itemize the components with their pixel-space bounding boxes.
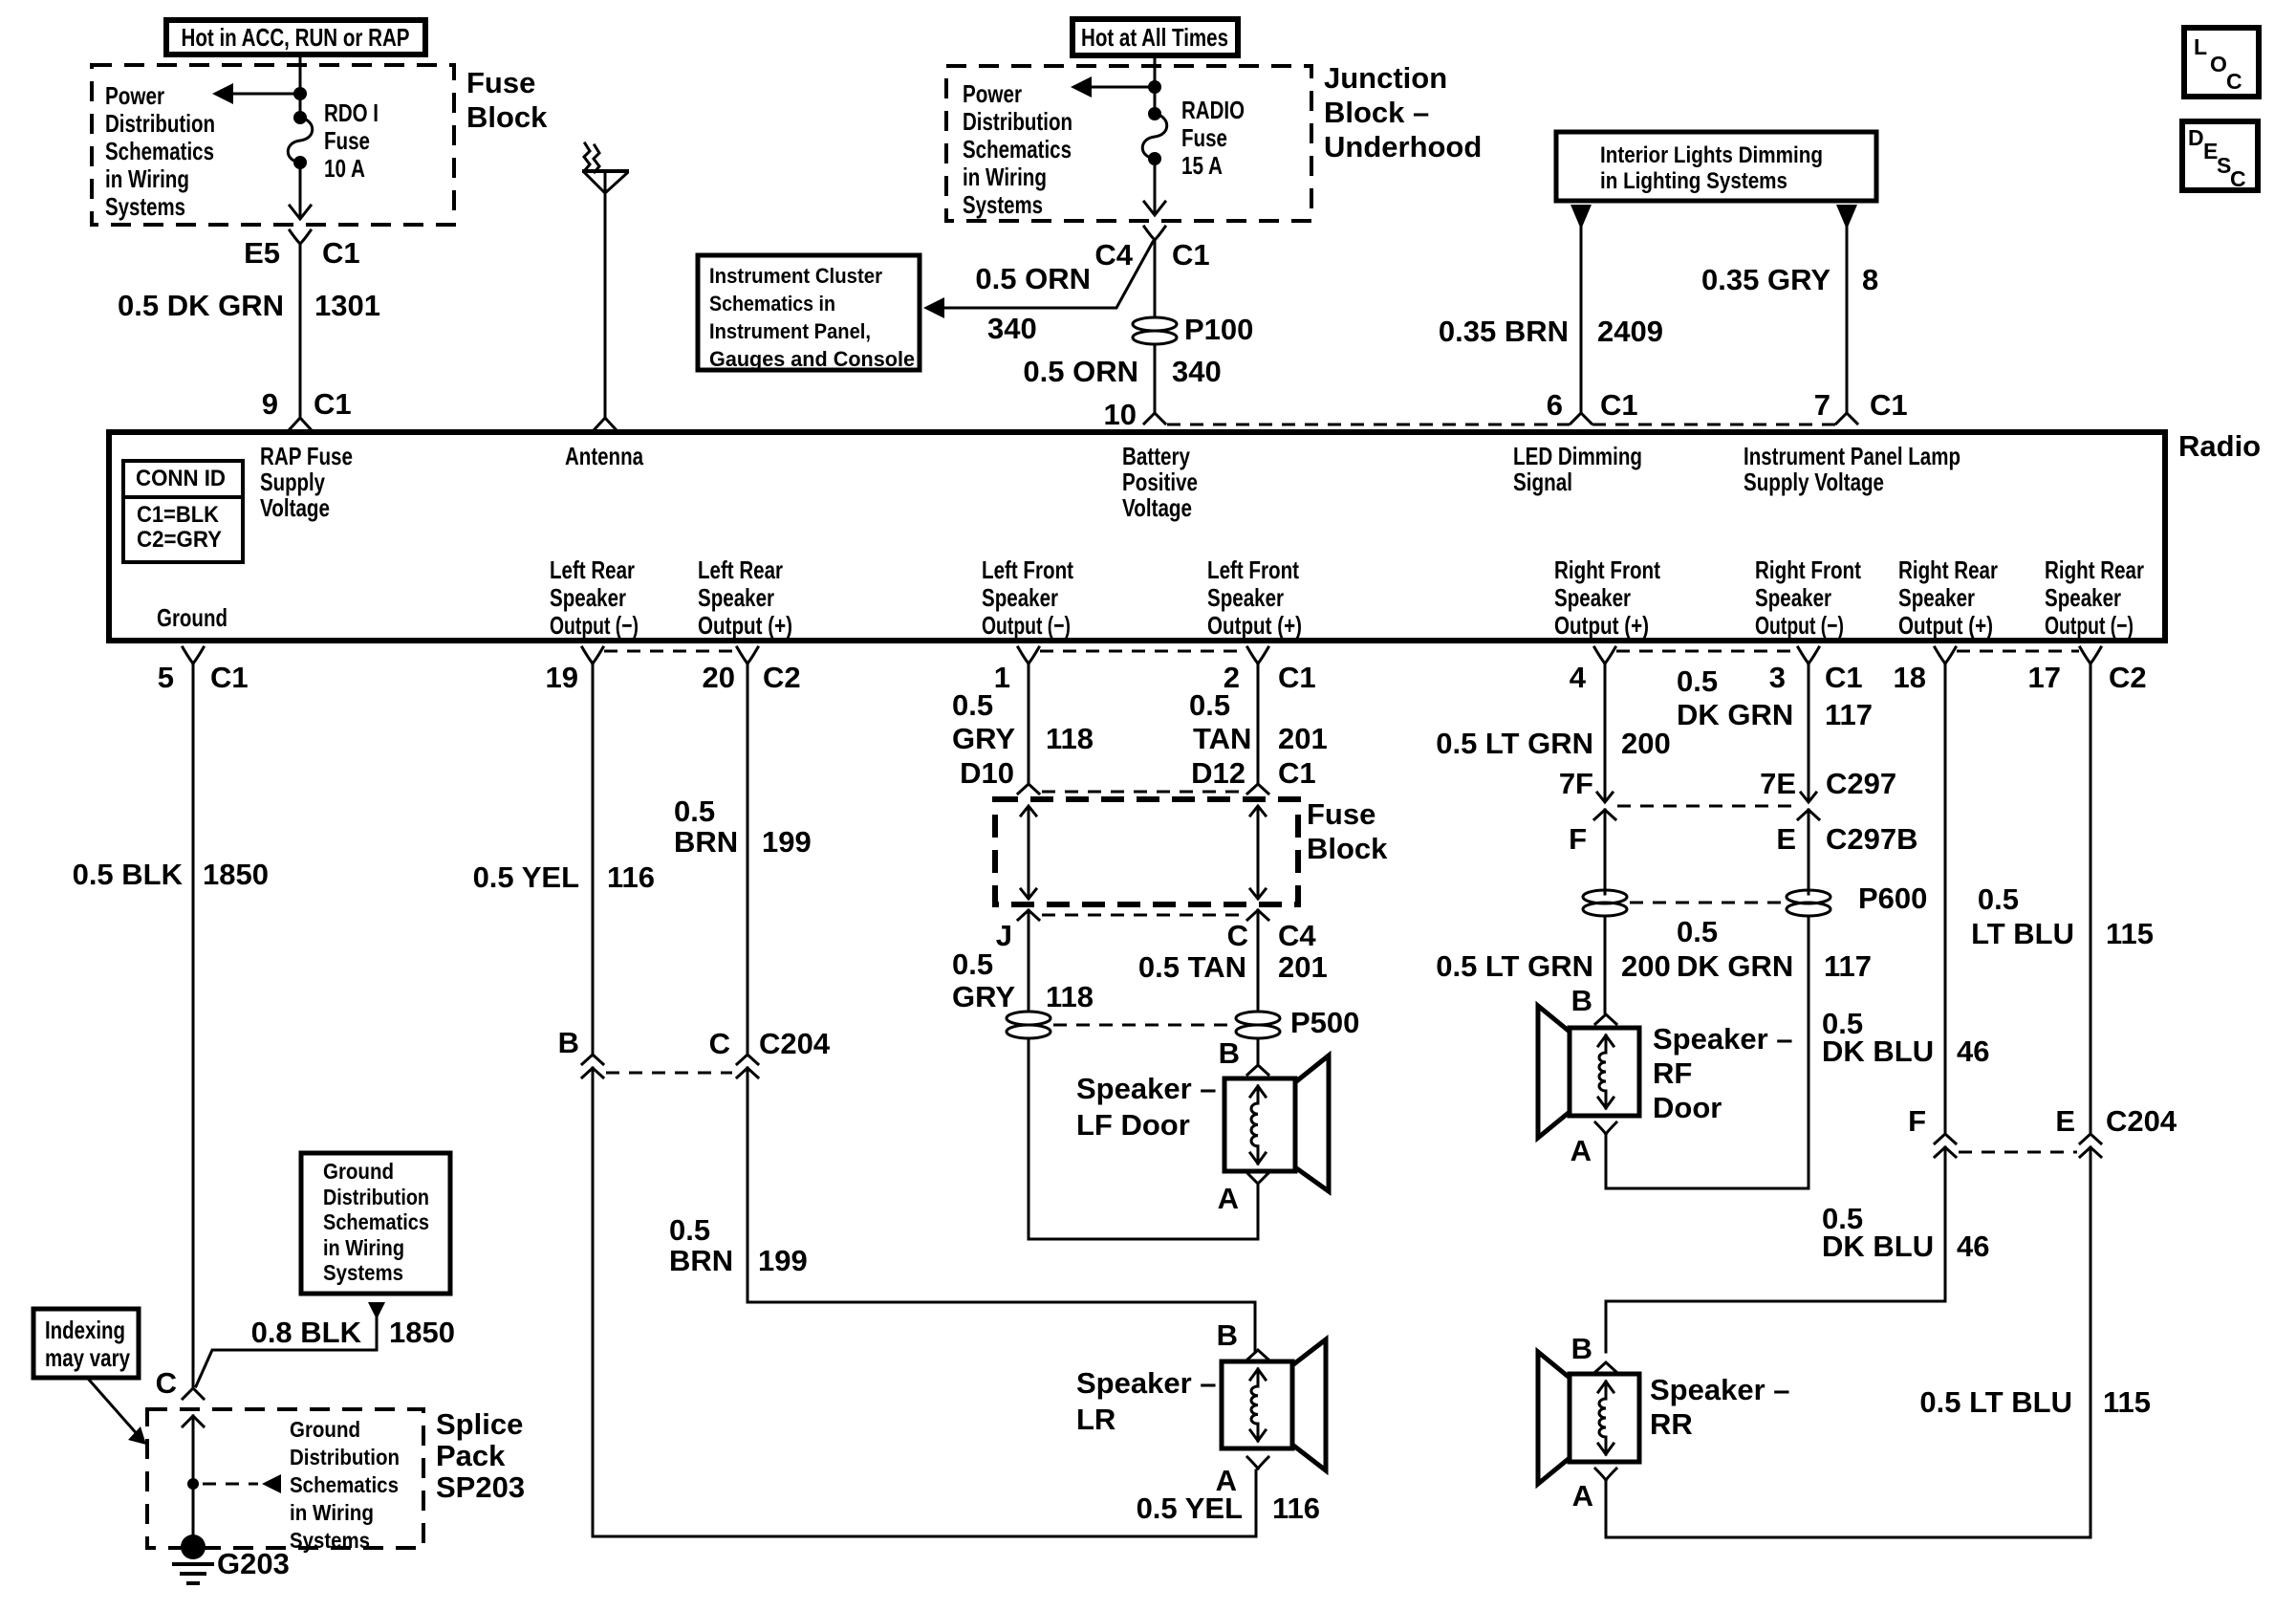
svg-text:Systems: Systems <box>290 1528 370 1553</box>
svg-text:B: B <box>558 1026 579 1059</box>
svg-text:4: 4 <box>1570 661 1587 694</box>
svg-text:Hot at All Times: Hot at All Times <box>1081 23 1228 52</box>
inline connector P100 <box>1133 317 1177 331</box>
pin 2 wire to capsule <box>1257 664 1260 782</box>
svg-text:Indexing: Indexing <box>45 1316 125 1344</box>
svg-text:Instrument Panel Lamp: Instrument Panel Lamp <box>1744 442 1960 470</box>
svg-text:0.5: 0.5 <box>1677 664 1718 698</box>
svg-text:CONN ID: CONN ID <box>136 466 226 491</box>
LOC box <box>2184 28 2259 97</box>
svg-text:Splice: Splice <box>436 1407 523 1441</box>
svg-text:Distribution: Distribution <box>963 107 1072 136</box>
svg-text:1850: 1850 <box>203 858 269 891</box>
svg-text:D12: D12 <box>1191 756 1245 790</box>
svg-text:Voltage: Voltage <box>1122 493 1192 522</box>
svg-text:G203: G203 <box>217 1547 290 1580</box>
wire pin1 to LF speaker A loop <box>1029 1038 1258 1239</box>
svg-text:201: 201 <box>1278 722 1328 755</box>
svg-text:B: B <box>1571 984 1592 1017</box>
antenna wire <box>604 171 607 417</box>
svg-text:C4: C4 <box>1094 238 1133 272</box>
speaker RF Door <box>1570 1028 1639 1116</box>
svg-text:Speaker: Speaker <box>550 583 626 612</box>
svg-text:2409: 2409 <box>1597 315 1663 348</box>
svg-text:E: E <box>2055 1104 2075 1138</box>
svg-text:0.5: 0.5 <box>952 947 993 981</box>
connector Y at radio pin 5 (Ground) <box>183 647 204 664</box>
dashed link across radio top <box>1167 424 1835 426</box>
pin 18 wire lower to RR speaker B <box>1606 1147 1945 1352</box>
connector Y at radio pin 17 <box>2080 647 2101 664</box>
connector Y at radio pin 20 <box>737 647 758 664</box>
svg-text:Speaker: Speaker <box>1207 583 1284 612</box>
dashed connector link pins 1-2 <box>1040 650 1246 653</box>
wire E5/C1 to radio <box>299 244 302 417</box>
connector Y at radio pin 1 <box>1018 647 1039 664</box>
svg-text:201: 201 <box>1278 950 1328 984</box>
svg-text:20: 20 <box>703 661 735 694</box>
svg-text:C1: C1 <box>314 387 352 421</box>
DESC box <box>2182 121 2258 190</box>
svg-text:Output (+): Output (+) <box>1898 611 1993 640</box>
svg-text:Speaker –: Speaker – <box>1650 1373 1790 1406</box>
svg-text:116: 116 <box>1272 1491 1320 1525</box>
svg-text:Block: Block <box>466 100 548 134</box>
svg-text:8: 8 <box>1862 263 1878 296</box>
wire down with open arrow <box>299 163 302 218</box>
wire pin4 to RF speaker B <box>1604 916 1607 1012</box>
svg-text:Output (+): Output (+) <box>1207 611 1302 640</box>
svg-text:Schematics: Schematics <box>105 137 214 165</box>
fuse RDO I 10A <box>293 111 307 124</box>
connector Y at radio pin 3 <box>1798 647 1819 664</box>
wire down to P100 <box>1154 240 1157 317</box>
svg-text:Output (+): Output (+) <box>1554 611 1649 640</box>
svg-text:1301: 1301 <box>314 289 380 322</box>
svg-text:BRN: BRN <box>669 1244 733 1277</box>
connector Y at radio pin 4 <box>1594 647 1615 664</box>
pin 4 wire upper <box>1604 664 1607 800</box>
wires down to P500 <box>1029 910 1258 1009</box>
ground distribution note box <box>301 1153 450 1294</box>
label box "Hot at All Times" <box>1072 19 1238 55</box>
svg-text:Block –: Block – <box>1324 96 1429 129</box>
double arrows through fuse block <box>1021 806 1036 899</box>
svg-text:0.5 DK GRN: 0.5 DK GRN <box>118 289 284 322</box>
svg-text:0.5 BLK: 0.5 BLK <box>73 858 184 891</box>
svg-text:18: 18 <box>1894 661 1926 694</box>
svg-text:116: 116 <box>607 860 655 894</box>
svg-text:Hot in ACC, RUN or RAP: Hot in ACC, RUN or RAP <box>182 23 410 52</box>
chevron at radio entry <box>290 418 311 429</box>
svg-text:Instrument Cluster: Instrument Cluster <box>709 264 882 288</box>
wires down to P600 <box>1605 810 1809 894</box>
svg-text:BRN: BRN <box>674 825 738 859</box>
svg-text:Ground: Ground <box>323 1159 394 1184</box>
svg-text:GRY: GRY <box>952 722 1015 755</box>
branch arrow to Power Distribution <box>229 93 300 96</box>
connector Y below fuse block <box>290 230 311 244</box>
svg-text:B: B <box>1571 1332 1592 1365</box>
junction block dashed box <box>946 66 1311 221</box>
svg-text:0.5: 0.5 <box>1978 882 2019 916</box>
svg-text:0.5 YEL: 0.5 YEL <box>473 860 579 894</box>
svg-text:9: 9 <box>262 387 278 421</box>
svg-text:Distribution: Distribution <box>290 1445 400 1469</box>
branch to instrument cluster <box>941 242 1153 308</box>
svg-text:C1=BLK: C1=BLK <box>137 502 220 528</box>
svg-text:Supply: Supply <box>260 468 325 496</box>
svg-text:C: C <box>2230 166 2246 191</box>
wire from hot box <box>1154 55 1157 114</box>
svg-text:Battery: Battery <box>1122 442 1190 470</box>
svg-text:Fuse: Fuse <box>466 66 535 99</box>
svg-text:C1: C1 <box>210 661 249 694</box>
svg-text:DK GRN: DK GRN <box>1677 698 1793 731</box>
svg-text:Output (−): Output (−) <box>550 611 639 640</box>
svg-text:5: 5 <box>158 661 174 694</box>
svg-text:17: 17 <box>2028 661 2061 694</box>
svg-text:Systems: Systems <box>323 1260 403 1285</box>
svg-text:0.8 BLK: 0.8 BLK <box>251 1316 362 1349</box>
pin 18 wire <box>1944 664 1947 1134</box>
svg-text:DK BLU: DK BLU <box>1822 1034 1934 1068</box>
svg-text:Fuse: Fuse <box>1307 797 1375 831</box>
svg-text:Right Rear: Right Rear <box>1898 555 1998 584</box>
svg-text:Schematics: Schematics <box>290 1472 399 1497</box>
svg-text:D10: D10 <box>960 756 1014 790</box>
svg-text:C1: C1 <box>1870 388 1908 422</box>
svg-text:Speaker: Speaker <box>982 583 1058 612</box>
svg-text:Interior Lights Dimming: Interior Lights Dimming <box>1600 142 1823 168</box>
svg-text:0.5: 0.5 <box>669 1213 710 1247</box>
svg-text:0.5 LT GRN: 0.5 LT GRN <box>1436 949 1593 983</box>
svg-text:10: 10 <box>1104 398 1137 431</box>
svg-text:118: 118 <box>1046 980 1094 1013</box>
svg-text:Gauges and Console: Gauges and Console <box>709 347 915 371</box>
svg-text:7E: 7E <box>1760 767 1796 800</box>
wire pin 6 <box>1580 228 1583 412</box>
svg-text:Schematics in: Schematics in <box>709 292 835 316</box>
svg-text:Fuse: Fuse <box>1181 123 1227 152</box>
dashed connector link pins 4-3 <box>1616 650 1797 653</box>
svg-text:Systems: Systems <box>963 190 1043 219</box>
svg-text:O: O <box>2210 52 2227 76</box>
svg-text:15 A: 15 A <box>1181 151 1223 180</box>
svg-text:in Lighting Systems: in Lighting Systems <box>1600 168 1787 194</box>
arrow to box (panel lamp wire) <box>1836 205 1857 229</box>
svg-text:E5: E5 <box>244 236 280 270</box>
junction dot <box>293 87 307 100</box>
svg-text:C: C <box>156 1366 177 1400</box>
svg-text:0.5 YEL: 0.5 YEL <box>1137 1491 1243 1525</box>
svg-text:Instrument Panel,: Instrument Panel, <box>709 319 871 343</box>
svg-text:D: D <box>2188 125 2204 150</box>
svg-text:B: B <box>1217 1318 1238 1352</box>
dashed arrow inside splice pack <box>203 1483 258 1486</box>
svg-text:C2: C2 <box>2109 661 2147 694</box>
svg-text:340: 340 <box>987 312 1037 345</box>
svg-text:1: 1 <box>994 661 1010 694</box>
svg-text:in Wiring: in Wiring <box>963 163 1047 191</box>
svg-text:RADIO: RADIO <box>1181 96 1245 124</box>
svg-text:Signal: Signal <box>1513 468 1572 496</box>
svg-text:0.5 LT GRN: 0.5 LT GRN <box>1436 727 1593 760</box>
svg-text:0.5: 0.5 <box>674 795 715 828</box>
svg-text:E: E <box>1776 822 1796 856</box>
svg-text:C1: C1 <box>1825 661 1863 694</box>
svg-text:Radio: Radio <box>2178 429 2261 463</box>
svg-text:0.5 LT BLU: 0.5 LT BLU <box>1919 1385 2072 1419</box>
svg-text:SP203: SP203 <box>436 1470 525 1504</box>
wire pin3 down and to RF speaker A <box>1606 916 1809 1188</box>
pin 3 wire upper <box>1808 664 1810 800</box>
pin 1 wire to capsule <box>1028 664 1030 782</box>
wire 0.8 BLK 1850 branch <box>196 1317 377 1386</box>
svg-text:46: 46 <box>1957 1230 1989 1263</box>
connector Y at radio pin 2 <box>1247 647 1268 664</box>
svg-text:Pack: Pack <box>436 1439 506 1472</box>
note box "Interior Lights Dimming in Lighting Systems" <box>1556 132 1876 201</box>
svg-text:C204: C204 <box>2106 1104 2177 1138</box>
svg-text:C297B: C297B <box>1826 822 1918 856</box>
pin 19 wire upper <box>592 664 595 1056</box>
svg-text:Speaker: Speaker <box>1898 583 1975 612</box>
svg-text:117: 117 <box>1824 949 1872 983</box>
connector Y at radio pin 18 <box>1935 647 1956 664</box>
indexing may vary box <box>33 1309 139 1378</box>
svg-text:P100: P100 <box>1184 313 1253 346</box>
svg-text:Distribution: Distribution <box>323 1185 429 1209</box>
wire pin2 to LF speaker B <box>1257 1038 1260 1063</box>
svg-text:C1: C1 <box>322 236 360 270</box>
svg-text:115: 115 <box>2106 917 2154 950</box>
svg-text:in Wiring: in Wiring <box>105 164 189 193</box>
svg-text:Speaker: Speaker <box>698 583 774 612</box>
label box "Hot in ACC, RUN or RAP" <box>166 20 425 54</box>
inline connectors P500 <box>1007 1012 1051 1025</box>
svg-text:C2: C2 <box>763 661 801 694</box>
svg-text:LF Door: LF Door <box>1076 1108 1190 1142</box>
svg-text:Door: Door <box>1653 1091 1722 1124</box>
svg-text:340: 340 <box>1172 355 1222 388</box>
svg-text:B: B <box>1219 1036 1240 1070</box>
svg-text:Left Front: Left Front <box>1207 555 1299 584</box>
svg-text:C: C <box>2226 69 2242 94</box>
svg-text:Positive: Positive <box>1122 468 1198 496</box>
instrument cluster note box <box>698 255 920 370</box>
dashed connector link pins 19-20 <box>604 650 736 653</box>
svg-text:DK GRN: DK GRN <box>1677 949 1793 983</box>
svg-text:RF: RF <box>1653 1056 1692 1090</box>
svg-text:A: A <box>1572 1479 1593 1513</box>
svg-text:P600: P600 <box>1858 882 1927 915</box>
svg-text:Underhood: Underhood <box>1324 130 1482 163</box>
svg-text:Antenna: Antenna <box>565 442 643 470</box>
svg-text:C: C <box>709 1027 730 1060</box>
svg-text:0.5 ORN: 0.5 ORN <box>975 262 1091 295</box>
svg-text:0.5 TAN: 0.5 TAN <box>1138 950 1246 984</box>
svg-text:Fuse: Fuse <box>324 126 370 155</box>
connector Y below junction block <box>1144 227 1165 240</box>
svg-text:Speaker –: Speaker – <box>1076 1072 1217 1105</box>
svg-text:RR: RR <box>1650 1407 1693 1441</box>
pin 20 wire to LR speaker B <box>747 664 1255 1352</box>
ground wire <box>192 664 195 1388</box>
svg-text:Right Rear: Right Rear <box>2045 555 2144 584</box>
svg-text:Speaker: Speaker <box>1554 583 1631 612</box>
svg-text:Schematics: Schematics <box>323 1209 429 1234</box>
svg-text:DK BLU: DK BLU <box>1822 1230 1934 1263</box>
svg-text:Ground: Ground <box>290 1417 360 1442</box>
svg-text:1850: 1850 <box>389 1316 455 1349</box>
svg-text:Output (−): Output (−) <box>1755 611 1844 640</box>
svg-text:RDO I: RDO I <box>324 98 379 127</box>
arrow from 1850 branch to note box <box>368 1302 385 1319</box>
svg-text:7F: 7F <box>1559 767 1593 800</box>
ground G203 <box>181 1535 206 1559</box>
svg-text:3: 3 <box>1769 661 1786 694</box>
svg-text:TAN: TAN <box>1193 722 1251 755</box>
svg-text:Power: Power <box>963 79 1022 108</box>
svg-text:L: L <box>2194 34 2207 59</box>
svg-text:Junction: Junction <box>1324 61 1447 95</box>
svg-text:LT BLU: LT BLU <box>1971 917 2074 950</box>
svg-text:Speaker: Speaker <box>2045 583 2121 612</box>
svg-text:Speaker –: Speaker – <box>1653 1022 1793 1056</box>
svg-text:117: 117 <box>1825 698 1873 731</box>
svg-text:199: 199 <box>758 1244 808 1277</box>
svg-text:19: 19 <box>546 661 578 694</box>
connector chevrons above fuse block <box>1018 784 1268 794</box>
svg-text:Supply Voltage: Supply Voltage <box>1744 468 1884 496</box>
svg-text:46: 46 <box>1957 1034 1989 1068</box>
svg-text:P500: P500 <box>1290 1006 1359 1039</box>
svg-text:in Wiring: in Wiring <box>323 1235 404 1260</box>
svg-text:Left Rear: Left Rear <box>698 555 783 584</box>
splice pack dashed box <box>147 1409 423 1548</box>
connector chevrons below fuse block J / C C4 <box>1018 910 1268 920</box>
inline connectors P600 <box>1583 890 1627 903</box>
arrow to box (LED dimming wire) <box>1570 205 1592 229</box>
svg-text:0.5: 0.5 <box>952 688 993 722</box>
svg-text:0.5 ORN: 0.5 ORN <box>1023 355 1138 388</box>
svg-text:0.5: 0.5 <box>1189 688 1230 722</box>
svg-text:6: 6 <box>1547 388 1563 422</box>
speaker LF Door <box>1224 1078 1295 1171</box>
svg-text:C204: C204 <box>759 1027 831 1060</box>
svg-text:Voltage: Voltage <box>260 493 330 522</box>
svg-text:RAP Fuse: RAP Fuse <box>260 442 353 470</box>
svg-text:LR: LR <box>1076 1403 1116 1436</box>
svg-text:0.5: 0.5 <box>1677 915 1718 948</box>
svg-text:Distribution: Distribution <box>105 109 215 138</box>
svg-text:C1: C1 <box>1600 388 1638 422</box>
speaker LR <box>1222 1361 1292 1448</box>
fuse block bold dashed box <box>995 799 1298 904</box>
arrow from indexing box <box>89 1380 140 1437</box>
wire from Hot box into fuse <box>299 54 302 118</box>
svg-text:0.35 BRN: 0.35 BRN <box>1439 315 1569 348</box>
svg-text:Power: Power <box>105 81 164 110</box>
svg-text:F: F <box>1569 822 1587 856</box>
svg-text:C297: C297 <box>1826 767 1896 800</box>
svg-text:LED Dimming: LED Dimming <box>1513 442 1642 470</box>
antenna symbol <box>582 169 629 173</box>
fuse block dashed box <box>92 65 454 225</box>
svg-text:Systems: Systems <box>105 192 185 221</box>
svg-text:C1: C1 <box>1172 238 1210 272</box>
svg-text:200: 200 <box>1621 949 1671 983</box>
dashed connector link pins 18-17 <box>1957 650 2079 653</box>
svg-text:C: C <box>1227 919 1248 952</box>
wire inside splice pack <box>192 1416 195 1535</box>
connector Y at radio pin 19 <box>582 647 603 664</box>
svg-text:0.35 GRY: 0.35 GRY <box>1701 263 1830 296</box>
svg-text:A: A <box>1218 1182 1239 1215</box>
wire pin 7 <box>1846 228 1849 412</box>
svg-text:J: J <box>996 919 1012 952</box>
svg-text:Output (−): Output (−) <box>2045 611 2134 640</box>
svg-text:F: F <box>1908 1104 1926 1138</box>
svg-text:C1: C1 <box>1278 756 1316 790</box>
svg-text:A: A <box>1570 1134 1592 1167</box>
svg-text:Speaker –: Speaker – <box>1076 1366 1217 1400</box>
svg-text:C2=GRY: C2=GRY <box>137 527 222 553</box>
svg-text:Output (−): Output (−) <box>982 611 1071 640</box>
pin 17 wire <box>1606 664 2090 1537</box>
CONN ID table <box>123 461 243 562</box>
fuse RADIO 15A <box>1148 107 1161 120</box>
svg-text:118: 118 <box>1046 722 1094 755</box>
svg-text:199: 199 <box>762 825 812 859</box>
svg-text:7: 7 <box>1814 388 1830 422</box>
svg-text:Right Front: Right Front <box>1554 555 1660 584</box>
svg-text:Ground: Ground <box>157 603 227 632</box>
svg-text:115: 115 <box>2103 1385 2151 1419</box>
svg-text:Left Rear: Left Rear <box>550 555 635 584</box>
pin 19 wire lower long run to LR speaker A <box>593 1068 1256 1536</box>
svg-text:10 A: 10 A <box>324 154 365 183</box>
svg-text:200: 200 <box>1621 727 1671 760</box>
svg-text:Speaker: Speaker <box>1755 583 1831 612</box>
svg-text:in Wiring: in Wiring <box>290 1500 374 1525</box>
svg-text:Schematics: Schematics <box>963 135 1072 163</box>
svg-text:Block: Block <box>1307 832 1388 865</box>
svg-text:may vary: may vary <box>45 1343 130 1372</box>
svg-text:Left Front: Left Front <box>982 555 1073 584</box>
speaker RR <box>1570 1374 1639 1462</box>
svg-text:Output (+): Output (+) <box>698 611 792 640</box>
svg-text:C1: C1 <box>1278 661 1316 694</box>
svg-text:Right Front: Right Front <box>1755 555 1861 584</box>
svg-text:C4: C4 <box>1278 919 1316 952</box>
svg-text:GRY: GRY <box>952 980 1015 1013</box>
